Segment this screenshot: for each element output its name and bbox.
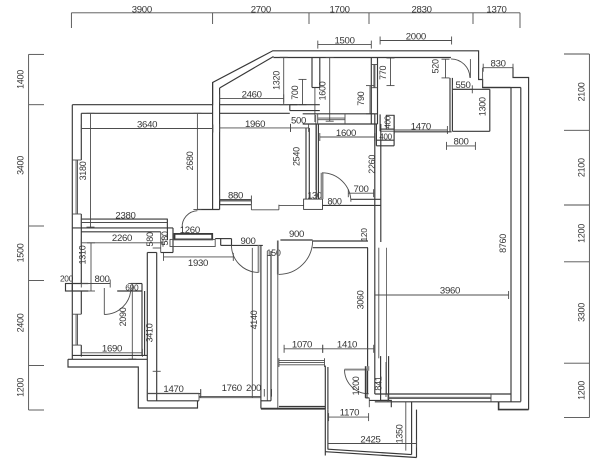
dim 1350 — [405, 402, 407, 451]
svg-text:1960: 1960 — [245, 119, 265, 130]
svg-text:2540: 2540 — [292, 147, 302, 166]
svg-text:800: 800 — [453, 136, 468, 147]
wall hall north c — [313, 240, 368, 242]
svg-text:841: 841 — [374, 376, 384, 390]
dim 1320 — [280, 57, 288, 104]
svg-text:1930: 1930 — [188, 258, 208, 269]
dim 1070 — [284, 345, 323, 353]
wall bathroom right — [141, 284, 143, 356]
line rm-room edge — [315, 115, 317, 190]
wall mid top outer run — [220, 104, 298, 106]
balcony bottom — [325, 452, 416, 458]
cabinet 1260 box — [170, 239, 215, 246]
column kitchen/hall — [386, 115, 394, 129]
svg-text:800: 800 — [94, 274, 109, 285]
svg-text:2100: 2100 — [577, 158, 587, 177]
svg-text:3300: 3300 — [577, 303, 587, 322]
wall top band inner run — [220, 112, 290, 114]
door kitchen leaf — [469, 59, 471, 78]
dim 800 bath — [81, 280, 110, 288]
wall bedroom bottom — [81, 218, 167, 220]
window kitchen left — [371, 65, 377, 88]
wall bathroom bottom — [72, 354, 147, 356]
svg-text:130: 130 — [307, 191, 321, 201]
dim 520 — [442, 59, 450, 78]
svg-text:3060: 3060 — [355, 290, 365, 309]
svg-text:1320: 1320 — [271, 71, 281, 90]
wall left inner mid — [80, 214, 82, 284]
wall bm room right — [364, 366, 366, 398]
dim 830 — [483, 64, 513, 72]
door hall left leaf — [258, 245, 260, 272]
closet stem — [314, 88, 316, 123]
sill line mid room — [251, 209, 279, 211]
dim 1310 — [87, 243, 95, 291]
dim 700 rm — [348, 189, 373, 197]
dim 3640 — [81, 125, 213, 133]
line living west extra — [386, 248, 388, 394]
dim 770 — [387, 58, 395, 86]
svg-text:1470: 1470 — [163, 384, 183, 395]
wall left inner bottom — [80, 345, 82, 355]
svg-text:900: 900 — [240, 236, 255, 247]
door hall left arc — [232, 245, 259, 272]
dim 3180 — [87, 113, 95, 227]
svg-text:3900: 3900 — [132, 4, 152, 15]
svg-text:1200: 1200 — [577, 224, 587, 243]
dim 1500 — [318, 41, 372, 49]
wall step cabinet — [215, 239, 221, 246]
dim 880 — [220, 196, 252, 204]
dim 2090 — [128, 284, 136, 360]
svg-text:2260: 2260 — [112, 233, 132, 244]
dim 4140 — [251, 248, 253, 398]
wall big room bottom — [375, 393, 511, 395]
svg-text:2260: 2260 — [367, 155, 377, 174]
dim 500 — [291, 124, 309, 132]
svg-text:2680: 2680 — [185, 151, 195, 170]
dim 1600 foyer — [326, 58, 334, 122]
wall left inner lower — [80, 291, 82, 314]
door bath arc — [104, 288, 131, 315]
svg-text:500: 500 — [291, 116, 306, 127]
dim 2380 — [81, 219, 167, 227]
shaft walls — [380, 356, 382, 400]
dim 700 — [299, 79, 307, 104]
threshold box — [304, 199, 323, 209]
dim 3410 ticks — [153, 247, 161, 249]
dim 800 top right — [447, 142, 476, 150]
svg-text:900: 900 — [289, 229, 304, 240]
wall living west — [260, 245, 262, 408]
door bm arc — [345, 370, 369, 394]
wall hall north a — [221, 238, 232, 240]
svg-text:1600: 1600 — [336, 128, 356, 139]
platform rail — [513, 68, 529, 410]
window kitchen bottom band — [318, 114, 345, 124]
wall outer top-left + diagonal + top — [72, 51, 510, 105]
wall mid-column upper — [305, 128, 307, 199]
wall hall west top cap — [147, 252, 156, 254]
wall inner top (foyer/kitchen) — [274, 57, 451, 59]
dim 2260 left — [81, 239, 163, 247]
wall inner diagonal — [220, 57, 274, 89]
wall kitchen right — [449, 78, 451, 131]
svg-text:580: 580 — [145, 232, 155, 246]
wall top band over mid-column — [290, 104, 320, 106]
boundary step bottom-left — [68, 359, 198, 408]
svg-text:1400: 1400 — [16, 70, 26, 89]
wall under kitchen window band — [303, 113, 378, 115]
dim 2425 — [328, 440, 417, 448]
svg-text:790: 790 — [356, 91, 366, 105]
wall bathroom top — [72, 283, 88, 285]
svg-text:2700: 2700 — [251, 4, 271, 15]
wall right outer — [520, 88, 522, 402]
svg-text:1200: 1200 — [16, 378, 26, 397]
ac platform box — [452, 88, 489, 90]
wall hall bottom — [147, 393, 199, 395]
svg-text:2400: 2400 — [16, 313, 26, 332]
bump 200 — [66, 284, 73, 292]
svg-text:1410: 1410 — [337, 339, 357, 350]
wall rm-room bottom — [351, 198, 381, 200]
dim 1960 — [220, 124, 291, 132]
wall rm-room west — [315, 124, 317, 199]
svg-text:880: 880 — [228, 190, 243, 201]
wall leftmid top inner — [81, 231, 160, 233]
svg-text:2830: 2830 — [412, 4, 432, 15]
wall rm-room right upper — [374, 114, 376, 242]
svg-text:2460: 2460 — [242, 89, 262, 100]
svg-text:800: 800 — [327, 197, 341, 207]
dim 1600 kitchen — [320, 133, 375, 141]
svg-text:4140: 4140 — [249, 310, 259, 329]
svg-text:1070: 1070 — [292, 339, 312, 350]
wall inner top-left room — [81, 112, 212, 114]
svg-text:1760: 1760 — [222, 383, 242, 394]
balcony right wall — [411, 402, 413, 455]
wall line hall top — [394, 131, 451, 133]
platform left — [482, 68, 484, 88]
svg-text:1170: 1170 — [340, 407, 359, 418]
door bm leaf — [345, 369, 369, 371]
svg-text:120: 120 — [359, 228, 369, 242]
wall right top cap — [483, 87, 521, 89]
wall kitchen left — [370, 58, 372, 125]
wall bm bottom — [279, 406, 325, 408]
wall bedroom right — [212, 83, 214, 210]
dim chain top: overall line — [71, 13, 520, 28]
wall right inner — [510, 88, 512, 402]
svg-text:1500: 1500 — [16, 243, 26, 262]
wall hall west — [146, 253, 148, 401]
svg-text:1690: 1690 — [102, 344, 122, 355]
svg-text:3400: 3400 — [16, 156, 26, 175]
svg-text:1500: 1500 — [334, 36, 354, 47]
window hall bottom — [199, 394, 261, 401]
dim chain right: overall line — [564, 54, 589, 418]
balcony left wall — [324, 409, 326, 455]
svg-text:3410: 3410 — [145, 323, 155, 342]
svg-text:2425: 2425 — [360, 434, 380, 445]
svg-text:1200: 1200 — [351, 376, 361, 395]
dim 2680 — [193, 113, 201, 209]
svg-text:2100: 2100 — [577, 82, 587, 101]
wall left outer — [71, 105, 73, 360]
svg-text:8760: 8760 — [498, 234, 508, 253]
svg-text:1470: 1470 — [411, 121, 431, 132]
svg-text:700: 700 — [290, 85, 300, 99]
svg-text:520: 520 — [430, 59, 440, 73]
svg-text:770: 770 — [378, 65, 388, 79]
svg-text:1200: 1200 — [577, 381, 587, 400]
dim 1690 — [81, 349, 142, 357]
shaft block — [369, 400, 391, 407]
svg-text:200: 200 — [60, 274, 74, 284]
dim 3960 — [375, 291, 509, 299]
door bedroom arc — [182, 211, 197, 228]
wall mid room bottom (half wall) — [220, 200, 252, 202]
closet foyer — [311, 58, 313, 88]
door rm arc — [322, 173, 351, 202]
svg-text:3640: 3640 — [137, 119, 157, 130]
dim 1930 — [164, 253, 234, 261]
dim 1170 — [329, 413, 369, 421]
svg-text:1350: 1350 — [394, 424, 404, 443]
svg-text:3960: 3960 — [440, 286, 460, 297]
door kitchen arc — [451, 59, 470, 78]
niche verticals — [166, 219, 168, 240]
svg-text:2090: 2090 — [118, 307, 128, 326]
window left lower — [72, 314, 81, 345]
door bath leaf — [103, 288, 105, 315]
dim 550 — [452, 85, 472, 93]
dim 1410 — [323, 345, 374, 353]
wall living west-lower — [367, 248, 369, 394]
dim 1470 bottom — [147, 390, 200, 398]
sill line 2 — [279, 204, 304, 206]
wall left inner upper — [80, 113, 82, 160]
svg-text:1310: 1310 — [77, 245, 87, 264]
wall bm room left — [324, 366, 326, 410]
tick 1760 — [200, 389, 202, 397]
svg-text:1700: 1700 — [330, 4, 350, 15]
svg-text:830: 830 — [491, 59, 506, 70]
door rm leaf — [321, 173, 324, 199]
window bm band — [279, 358, 325, 367]
svg-text:1600: 1600 — [317, 81, 327, 100]
cabinet 1260 sill — [175, 234, 213, 240]
dim 2460 — [220, 94, 284, 102]
svg-text:400: 400 — [384, 115, 393, 128]
dim 841 — [385, 362, 387, 397]
dim 790 — [366, 86, 374, 114]
door1 header — [232, 244, 263, 246]
dim 3060 — [378, 248, 380, 359]
dim 2000 — [380, 37, 452, 45]
svg-text:2380: 2380 — [115, 210, 135, 221]
door hall right leaf — [277, 241, 279, 275]
wall br corner — [499, 402, 529, 410]
dim 1470 hall top — [394, 126, 447, 134]
svg-text:3180: 3180 — [78, 161, 88, 180]
svg-text:200: 200 — [246, 383, 261, 394]
svg-text:1260: 1260 — [180, 225, 200, 236]
svg-text:1370: 1370 — [486, 4, 506, 15]
svg-text:700: 700 — [353, 184, 368, 195]
door hall right arc — [279, 241, 313, 275]
svg-text:2000: 2000 — [406, 31, 426, 42]
svg-text:1300: 1300 — [477, 97, 487, 116]
window left upper (3180) — [72, 160, 81, 214]
window big room bottom — [388, 394, 491, 402]
svg-text:580: 580 — [160, 231, 170, 245]
dim chain left: overall line — [29, 54, 44, 410]
door2 header — [280, 239, 312, 241]
